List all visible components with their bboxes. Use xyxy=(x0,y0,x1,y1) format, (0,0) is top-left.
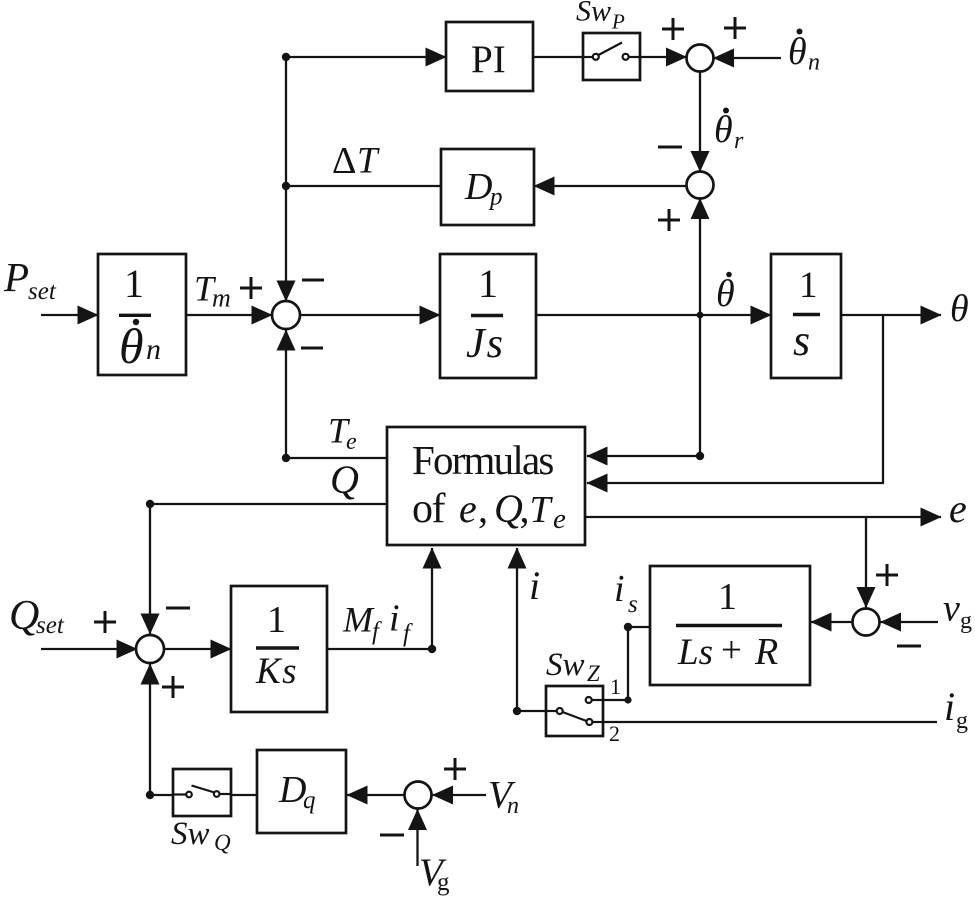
svg-text:r: r xyxy=(734,128,744,154)
summing junction S4 (Qset) xyxy=(136,635,164,663)
svg-text:P: P xyxy=(3,254,29,300)
wire e branch down to S5 xyxy=(865,517,867,608)
svg-text:θ: θ xyxy=(714,109,733,151)
svg-text:of: of xyxy=(412,486,446,532)
svg-text:e: e xyxy=(459,486,477,531)
svg-text:n: n xyxy=(146,333,161,366)
svg-text:M: M xyxy=(342,600,375,640)
svg-text:2: 2 xyxy=(609,721,620,746)
svg-text:P: P xyxy=(611,10,625,34)
svg-text:set: set xyxy=(28,278,57,305)
wire trunk vertical x=286 into S3 top xyxy=(285,57,287,301)
junction dot i riser corner xyxy=(513,707,521,715)
svg-text:,: , xyxy=(520,486,530,531)
wire Qset input to S4 xyxy=(41,648,137,650)
wire thn input to S1 xyxy=(714,57,782,59)
svg-text:R: R xyxy=(754,631,778,673)
svg-text:1: 1 xyxy=(718,576,737,618)
wire PI to SwP xyxy=(533,56,583,58)
wire theta-dot feedback into Formulas right side xyxy=(587,455,700,457)
svg-text:i: i xyxy=(389,598,400,640)
svg-text:θ: θ xyxy=(788,31,807,73)
block Dq xyxy=(257,750,346,833)
wire e output xyxy=(585,516,941,518)
svg-text:set: set xyxy=(36,612,65,639)
svg-text:T: T xyxy=(357,141,380,182)
junction dot Mf if corner xyxy=(428,645,436,653)
junction dot is corner xyxy=(624,623,632,631)
svg-text:Z: Z xyxy=(587,661,600,686)
plus sign at S2 bottom input xyxy=(658,209,680,231)
plus sign at S1 left input xyxy=(662,18,684,40)
svg-text:1: 1 xyxy=(610,674,621,699)
svg-text:Js: Js xyxy=(466,321,505,367)
minus sign at S2 top input xyxy=(658,146,682,149)
svg-text:i: i xyxy=(944,684,955,729)
svg-text:p: p xyxy=(488,184,503,211)
svg-text:1: 1 xyxy=(124,261,144,306)
block 1/(Ls+R) xyxy=(650,566,810,685)
summing junction S5 (e-vg) xyxy=(853,609,880,636)
svg-text:Q: Q xyxy=(214,830,231,855)
svg-text:1: 1 xyxy=(267,599,286,641)
wire SwZ pin2 to ig xyxy=(603,721,937,723)
switch SwQ contacts and lever xyxy=(186,792,192,798)
svg-text:1: 1 xyxy=(799,265,818,306)
svg-text:g: g xyxy=(437,869,450,896)
wire Vg input up to S6 bottom xyxy=(416,810,418,867)
summing junction S1 (speed ref) xyxy=(687,45,714,72)
plus sign at S3 left input xyxy=(240,277,262,299)
svg-text:s: s xyxy=(793,316,810,365)
svg-text:Δ: Δ xyxy=(332,140,356,182)
junction dot SwQ branch corner xyxy=(146,791,154,799)
svg-text:Ks: Ks xyxy=(255,651,298,692)
plus sign at S6 right input xyxy=(444,758,466,780)
block Formulas xyxy=(387,427,585,545)
switch SwP box xyxy=(583,33,640,80)
svg-text:+: + xyxy=(721,630,742,671)
svg-text:m: m xyxy=(212,284,231,313)
wire S5 to Ls+R block xyxy=(811,621,853,623)
junction dot trunk/Te xyxy=(282,454,290,462)
svg-text:θ: θ xyxy=(119,318,144,374)
svg-text:1: 1 xyxy=(478,261,498,306)
wire trunk to PI xyxy=(286,56,446,58)
summing junction S2 (damping) xyxy=(687,172,714,199)
junction dot trunk/DeltaT xyxy=(282,182,290,190)
wire Dp output to trunk (DeltaT) xyxy=(286,185,441,187)
svg-text:i: i xyxy=(614,568,625,610)
wire vertical x=700 up into S2 bottom xyxy=(699,199,701,457)
wire S4 to 1/Ks xyxy=(164,648,231,650)
wire SwQ common stub xyxy=(150,794,173,796)
svg-text:s: s xyxy=(628,591,638,618)
svg-text:Q: Q xyxy=(330,457,359,502)
junction dot SwZ pin1 corner xyxy=(624,696,631,703)
svg-text:θ: θ xyxy=(716,273,735,315)
summing junction S6 (Vn-Vg) xyxy=(405,782,432,809)
minus sign at S3 top input xyxy=(302,279,324,282)
svg-text:θ: θ xyxy=(950,288,969,330)
svg-text:Sw: Sw xyxy=(576,0,611,28)
minus sign at S5 right input xyxy=(897,645,921,648)
wire S3 to 1/Js xyxy=(300,314,440,316)
plus sign at S5 top input xyxy=(876,564,898,586)
svg-text:D: D xyxy=(464,166,492,208)
svg-text:,: , xyxy=(478,486,488,531)
minus sign at S3 bottom input xyxy=(301,347,323,350)
wire i riser into Formulas bottom xyxy=(516,548,518,711)
block 1/Js xyxy=(440,254,536,378)
switch SwZ contacts and lever xyxy=(557,708,563,714)
minus sign at S6 bottom input xyxy=(380,834,404,837)
svg-text:PI: PI xyxy=(471,38,506,81)
svg-text:Formulas: Formulas xyxy=(412,437,553,483)
wire S1 down to S2 xyxy=(699,72,701,172)
svg-text:n: n xyxy=(507,793,519,819)
wire Mf if from 1/Ks up into Formulas bottom xyxy=(327,548,432,649)
switch SwP lever and contacts xyxy=(583,56,592,58)
block 1/theta-dot-n xyxy=(98,254,186,375)
wire Ls+R output is: left then down to SwZ pin1 xyxy=(603,627,650,700)
block 1/s xyxy=(771,254,841,378)
switch SwQ box xyxy=(173,769,231,816)
svg-text:e: e xyxy=(949,486,967,531)
plus sign at S1 right input xyxy=(724,17,746,39)
plus sign at S4 left input xyxy=(94,611,116,633)
wire theta feedback down into Formulas right side xyxy=(587,315,883,483)
junction dot theta-dot to Formulas corner xyxy=(696,452,704,460)
svg-text:e: e xyxy=(553,503,566,535)
wire Q from Formulas to S4 top xyxy=(150,504,387,634)
wire 1/s to theta output xyxy=(841,314,941,316)
switch SwZ box xyxy=(546,686,603,736)
wire Pset input xyxy=(41,314,98,316)
wire Vn input to S6 xyxy=(433,794,487,796)
svg-text:Sw: Sw xyxy=(546,647,585,683)
svg-text:g: g xyxy=(956,708,968,734)
block PI xyxy=(446,22,533,91)
wire 1/Js to 1/s xyxy=(536,314,771,316)
wire Tm: 1/thn block to sum S3 xyxy=(186,314,272,316)
svg-text:i: i xyxy=(529,563,540,608)
svg-text:Ls: Ls xyxy=(677,632,713,673)
wire Te from Formulas to S3 bottom xyxy=(286,330,387,458)
wire SwQ branch up into S4 bottom xyxy=(149,664,151,795)
block 1/Ks xyxy=(231,586,327,712)
svg-text:g: g xyxy=(960,608,972,634)
wire SwQ to Dq xyxy=(231,794,257,796)
summing junction S3 (torque) xyxy=(272,301,300,329)
junction dot trunk/PI xyxy=(282,53,290,61)
fraction bar 1/(Ls+R) xyxy=(676,624,782,627)
fraction bar 1/Ks xyxy=(256,646,299,649)
fraction bar 1/Js xyxy=(471,314,503,317)
svg-text:e: e xyxy=(346,429,357,455)
wire SwP to S1 xyxy=(640,56,687,58)
block Dp xyxy=(441,149,534,225)
wire S2 to Dp xyxy=(534,185,687,187)
plus sign at S4 bottom input xyxy=(162,676,184,698)
svg-text:T: T xyxy=(530,489,554,531)
wire vg input to S5 xyxy=(881,621,939,623)
minus sign at S4 top input xyxy=(166,607,190,610)
svg-text:f: f xyxy=(403,620,413,647)
fraction bar 1/s xyxy=(793,313,820,316)
svg-text:q: q xyxy=(303,787,316,814)
junction dot theta-dot line crossing xyxy=(697,312,704,319)
svg-text:n: n xyxy=(808,50,820,76)
svg-text:Sw: Sw xyxy=(171,816,210,852)
fraction bar 1/thn xyxy=(119,314,151,317)
svg-text:v: v xyxy=(943,588,960,630)
svg-text:Q: Q xyxy=(9,593,39,639)
svg-text:f: f xyxy=(372,618,382,645)
junction dot Q corner xyxy=(146,500,154,508)
wire SwZ common to i riser xyxy=(517,710,546,712)
wire S6 to Dq input xyxy=(347,794,405,796)
